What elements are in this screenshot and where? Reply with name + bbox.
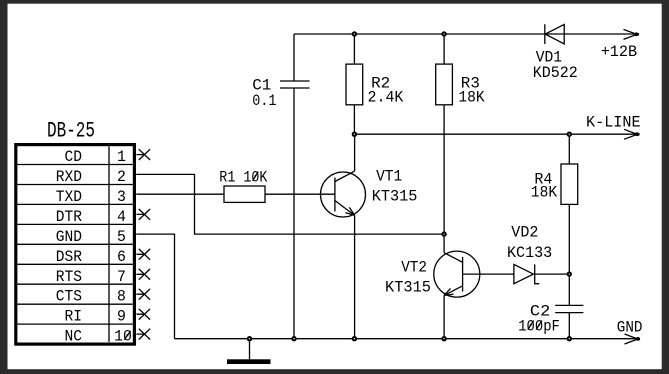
capacitor C1 [252, 77, 309, 111]
wire VT1 collector [354, 134, 356, 171]
svg-text:18K: 18K [531, 184, 558, 202]
junction [352, 31, 357, 36]
junction [352, 132, 357, 137]
wire DB25 pin5 GND to rail [136, 234, 174, 339]
wire GND rail [175, 338, 639, 340]
svg-text:RXD: RXD [56, 168, 82, 186]
junction [441, 336, 446, 341]
svg-text:VD2: VD2 [511, 224, 538, 242]
svg-text:RTS: RTS [56, 268, 82, 286]
resistor R2 [346, 34, 404, 134]
wire +12B top rail [294, 33, 637, 35]
no-connect X pin 4 [136, 209, 150, 220]
svg-text:8: 8 [117, 288, 126, 306]
junction [441, 231, 446, 236]
pin row GND 5 [56, 228, 126, 246]
svg-text:4: 4 [117, 208, 126, 226]
svg-text:9: 9 [117, 308, 126, 326]
capacitor C2 [518, 274, 583, 339]
pin row DSR 6 [56, 248, 126, 266]
wire C1 top leg [293, 34, 295, 81]
wire DB25 pin2 RXD to node [136, 174, 444, 234]
junction [567, 271, 572, 276]
diode VD2 [507, 224, 552, 284]
resistor R4 [531, 134, 578, 274]
svg-text:DB-25: DB-25 [47, 118, 95, 144]
svg-text:10: 10 [114, 328, 132, 346]
wire K-LINE rail [354, 133, 637, 135]
node +12B arrow [601, 29, 639, 61]
pin row CD 1 [65, 148, 126, 166]
resistor R3 [436, 34, 485, 234]
node K-LINE arrow [586, 114, 641, 140]
svg-text:VT2: VT2 [401, 259, 427, 277]
wire R1 to VT1 base [265, 193, 335, 195]
wire VT2 emitter [443, 295, 445, 338]
junction [247, 336, 252, 341]
svg-text:18K: 18K [458, 89, 485, 107]
svg-text:3: 3 [117, 188, 126, 206]
svg-text:GND: GND [56, 228, 82, 246]
svg-text:DTR: DTR [56, 208, 83, 226]
svg-text:KT315: KT315 [372, 188, 418, 206]
no-connect X pin 1 [136, 149, 150, 160]
svg-text:VT1: VT1 [376, 168, 402, 186]
no-connect X pin 7 [136, 269, 150, 280]
svg-text:+12B: +12B [601, 43, 637, 61]
transistor VT2 [385, 251, 480, 297]
junction [567, 336, 572, 341]
pin row CTS 8 [56, 288, 126, 306]
wire VT2 collector [443, 234, 445, 253]
svg-text:GND: GND [617, 318, 643, 336]
wire VT2 base to VD2 [463, 273, 514, 275]
svg-text:0.1: 0.1 [252, 92, 276, 110]
wire VT1 emitter [354, 215, 356, 338]
no-connect X pin 9 [136, 309, 150, 320]
pin row NC 10 [65, 328, 132, 346]
svg-text:NC: NC [65, 328, 83, 346]
no-connect X pin 6 [136, 249, 150, 260]
svg-text:RI: RI [65, 308, 83, 326]
pin row TXD 3 [56, 188, 126, 206]
transistor VT1 [321, 168, 418, 217]
no-connect X pin 10 [136, 329, 150, 340]
wire VD2 to node [535, 273, 570, 275]
svg-text:100pF: 100pF [518, 317, 560, 335]
svg-text:KD522: KD522 [533, 64, 578, 82]
svg-text:R1 10K: R1 10K [219, 169, 267, 187]
svg-text:7: 7 [117, 268, 126, 286]
pin row DTR 4 [56, 208, 126, 226]
svg-text:KT315: KT315 [385, 279, 431, 297]
no-connect X pin 8 [136, 289, 150, 300]
resistor R1 [219, 169, 267, 203]
junction [441, 31, 446, 36]
svg-text:CTS: CTS [56, 288, 82, 306]
pin row RTS 7 [56, 268, 126, 286]
wire C1 bottom leg [293, 88, 295, 339]
svg-text:2.4K: 2.4K [368, 89, 404, 107]
svg-text:K-LINE: K-LINE [586, 114, 641, 132]
junction [567, 132, 572, 137]
svg-text:6: 6 [117, 248, 126, 266]
junction [291, 336, 296, 341]
svg-text:TXD: TXD [56, 188, 82, 206]
svg-text:DSR: DSR [56, 248, 83, 266]
svg-text:KC133: KC133 [507, 244, 552, 262]
svg-text:1: 1 [117, 148, 126, 166]
svg-text:5: 5 [117, 228, 126, 246]
wire DB25 pin3 TXD to R1 [136, 193, 224, 195]
pin row RXD 2 [56, 168, 126, 186]
connector DB-25 table [16, 145, 135, 345]
svg-text:CD: CD [65, 148, 83, 166]
pin row RI 9 [65, 308, 126, 326]
ground [227, 339, 271, 364]
junction [352, 336, 357, 341]
svg-text:2: 2 [117, 168, 126, 186]
node GND arrow [617, 318, 643, 344]
diode VD1 [533, 24, 578, 82]
